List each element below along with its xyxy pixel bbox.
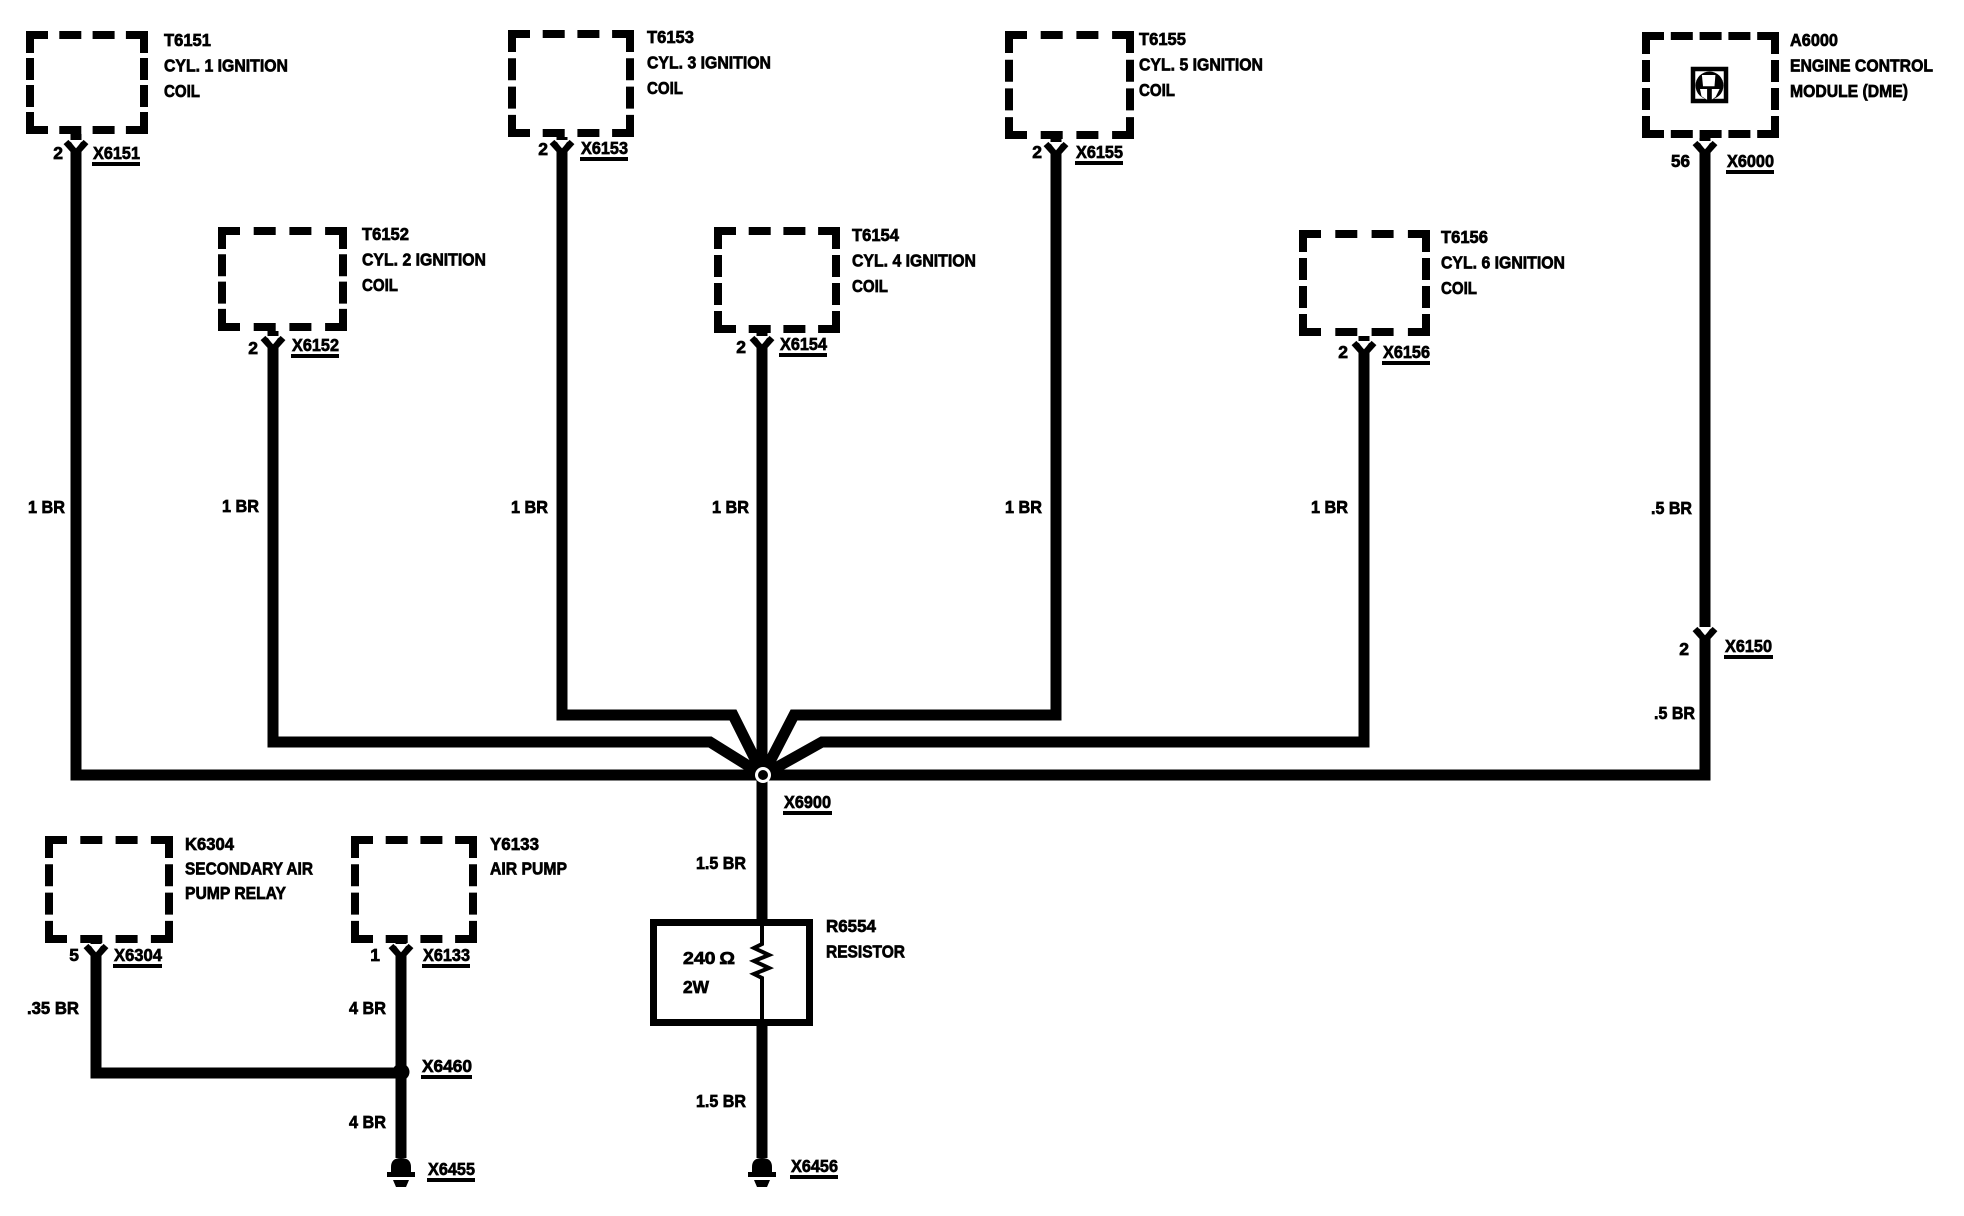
wire size label 1 BR at x548 y500 bbox=[511, 497, 548, 517]
label Y6133 bbox=[490, 834, 567, 879]
label T6154 bbox=[852, 225, 976, 296]
svg-text:.5 BR: .5 BR bbox=[1651, 498, 1692, 518]
wire size label 1 BR at x259 y499 bbox=[222, 496, 259, 516]
svg-text:5: 5 bbox=[69, 945, 79, 965]
svg-text:MODULE (DME): MODULE (DME) bbox=[1790, 81, 1908, 101]
svg-text:T6152: T6152 bbox=[362, 224, 409, 244]
wire size label 4 BR at x386 y1115 bbox=[349, 1112, 386, 1132]
connector X6152 pin 2 bbox=[248, 335, 339, 358]
wire size label 1 BR at x1348 y500 bbox=[1311, 497, 1348, 517]
svg-text:1 BR: 1 BR bbox=[712, 497, 749, 517]
A6000 DME icon bbox=[1693, 69, 1726, 101]
wire size label .5 BR at x1695 y706 bbox=[1654, 703, 1695, 723]
svg-text:T6156: T6156 bbox=[1441, 227, 1488, 247]
svg-text:T6155: T6155 bbox=[1139, 29, 1186, 49]
connector X6154 pin 2 bbox=[736, 334, 827, 357]
label A6000 bbox=[1790, 30, 1933, 101]
svg-text:X6456: X6456 bbox=[791, 1156, 838, 1176]
svg-text:CYL. 4 IGNITION: CYL. 4 IGNITION bbox=[852, 251, 976, 271]
svg-text:CYL. 1 IGNITION: CYL. 1 IGNITION bbox=[164, 56, 288, 76]
label R6554 bbox=[826, 916, 905, 961]
ignition coil T6154 bbox=[714, 227, 840, 333]
svg-text:PUMP RELAY: PUMP RELAY bbox=[185, 883, 286, 903]
svg-text:AIR PUMP: AIR PUMP bbox=[490, 859, 567, 879]
resistor R6554 box bbox=[654, 923, 810, 1023]
svg-text:X6154: X6154 bbox=[780, 334, 827, 354]
svg-text:X6150: X6150 bbox=[1725, 636, 1772, 656]
svg-text:RESISTOR: RESISTOR bbox=[826, 942, 905, 962]
svg-text:X6133: X6133 bbox=[423, 945, 470, 965]
connector X6133 pin 1 bbox=[370, 944, 470, 968]
svg-text:COIL: COIL bbox=[362, 275, 398, 295]
label T6156 bbox=[1441, 227, 1565, 298]
svg-text:4 BR: 4 BR bbox=[349, 998, 386, 1018]
node X6460 junction bbox=[393, 1064, 410, 1081]
svg-text:CYL. 3 IGNITION: CYL. 3 IGNITION bbox=[647, 53, 771, 73]
ground bus wire X6900 horizontal bbox=[71, 770, 1711, 781]
wire .5 BR from A6000 to ground bus bbox=[1700, 138, 1711, 770]
svg-text:X6153: X6153 bbox=[581, 138, 628, 158]
air pump Y6133 bbox=[351, 836, 477, 943]
svg-text:1 BR: 1 BR bbox=[1311, 497, 1348, 517]
ignition coil T6151 bbox=[26, 31, 148, 134]
svg-text:X6304: X6304 bbox=[114, 945, 162, 965]
label T6155 bbox=[1139, 29, 1263, 100]
wire size label 1.5 BR at x746 y856 bbox=[696, 853, 746, 873]
engine control module A6000 bbox=[1642, 32, 1779, 138]
wire 1.5 BR from resistor R6554 to ground X6456 bbox=[757, 1021, 768, 1158]
wire size label 4 BR at x386 y1001 bbox=[349, 998, 386, 1018]
svg-text:Y6133: Y6133 bbox=[490, 834, 539, 854]
svg-text:X6151: X6151 bbox=[93, 143, 140, 163]
ground X6456 bbox=[748, 1156, 838, 1187]
svg-text:COIL: COIL bbox=[1139, 80, 1175, 100]
svg-text:X6455: X6455 bbox=[428, 1159, 475, 1179]
svg-text:K6304: K6304 bbox=[185, 834, 234, 854]
svg-text:2: 2 bbox=[1338, 342, 1348, 362]
wire size label 1.5 BR at x746 y1094 bbox=[696, 1091, 746, 1111]
svg-text:1: 1 bbox=[370, 945, 380, 965]
svg-text:240 Ω: 240 Ω bbox=[683, 948, 735, 968]
svg-text:2: 2 bbox=[1032, 142, 1042, 162]
ignition coil T6156 bbox=[1299, 230, 1430, 336]
svg-text:1 BR: 1 BR bbox=[1005, 497, 1042, 517]
wire size label .35 BR at x79 y1001 bbox=[27, 998, 79, 1018]
node X6460 label bbox=[421, 1056, 472, 1079]
svg-text:CYL. 5 IGNITION: CYL. 5 IGNITION bbox=[1139, 55, 1263, 75]
wire size label 1 BR at x749 y500 bbox=[712, 497, 749, 517]
svg-text:1 BR: 1 BR bbox=[28, 497, 65, 517]
svg-text:X6156: X6156 bbox=[1383, 342, 1430, 362]
relay K6304 bbox=[45, 836, 173, 943]
wire size label 1 BR at x1042 y500 bbox=[1005, 497, 1042, 517]
svg-text:A6000: A6000 bbox=[1790, 30, 1838, 50]
svg-text:ENGINE CONTROL: ENGINE CONTROL bbox=[1790, 56, 1933, 76]
svg-text:T6153: T6153 bbox=[647, 27, 694, 47]
svg-text:T6154: T6154 bbox=[852, 225, 899, 245]
svg-text:4 BR: 4 BR bbox=[349, 1112, 386, 1132]
svg-text:COIL: COIL bbox=[164, 81, 200, 101]
connector X6150 pin 2 bbox=[1679, 627, 1773, 659]
svg-text:COIL: COIL bbox=[1441, 278, 1477, 298]
connector X6156 pin 2 bbox=[1338, 341, 1430, 365]
svg-text:56: 56 bbox=[1671, 151, 1690, 171]
connector X6304 pin 5 bbox=[69, 944, 162, 968]
connector X6155 pin 2 bbox=[1032, 142, 1123, 165]
resistor R6554 zigzag element bbox=[754, 925, 769, 1021]
wire size label .5 BR at x1692 y501 bbox=[1651, 498, 1692, 518]
svg-text:.5 BR: .5 BR bbox=[1654, 703, 1695, 723]
svg-text:1.5 BR: 1.5 BR bbox=[696, 1091, 746, 1111]
connector X6153 pin 2 bbox=[538, 138, 628, 161]
ground X6455 bbox=[387, 1158, 475, 1187]
svg-text:2: 2 bbox=[1679, 639, 1689, 659]
svg-text:R6554: R6554 bbox=[826, 916, 876, 936]
wire .35 BR from K6304 to node X6460 bbox=[96, 943, 401, 1073]
label T6151 bbox=[164, 30, 288, 101]
svg-text:.35 BR: .35 BR bbox=[27, 998, 79, 1018]
connector X6151 pin 2 bbox=[53, 140, 140, 166]
ignition coil T6153 bbox=[508, 30, 634, 137]
node X6900 label bbox=[783, 792, 832, 815]
svg-text:COIL: COIL bbox=[647, 78, 683, 98]
value label 240 ohm 2W bbox=[683, 948, 735, 997]
ignition coil T6152 bbox=[218, 227, 347, 331]
svg-text:X6460: X6460 bbox=[422, 1056, 472, 1076]
svg-text:2W: 2W bbox=[683, 977, 709, 997]
svg-text:COIL: COIL bbox=[852, 276, 888, 296]
svg-text:T6151: T6151 bbox=[164, 30, 211, 50]
svg-text:1 BR: 1 BR bbox=[222, 496, 259, 516]
label T6153 bbox=[647, 27, 771, 98]
wire 1 BR from T6155 to node X6900 bbox=[763, 139, 1056, 775]
svg-text:1.5 BR: 1.5 BR bbox=[696, 853, 746, 873]
svg-text:2: 2 bbox=[248, 338, 258, 358]
wire 1 BR from T6151 to ground bus bbox=[71, 134, 82, 770]
ignition coil T6155 bbox=[1005, 31, 1134, 139]
svg-text:X6900: X6900 bbox=[784, 792, 831, 812]
svg-text:SECONDARY AIR: SECONDARY AIR bbox=[185, 859, 313, 879]
svg-text:2: 2 bbox=[53, 143, 63, 163]
svg-text:X6155: X6155 bbox=[1076, 142, 1123, 162]
wire 1 BR from T6156 to node X6900 bbox=[763, 336, 1364, 775]
connector X6000 pin 56 bbox=[1671, 141, 1774, 174]
label K6304 bbox=[185, 834, 313, 903]
svg-text:2: 2 bbox=[736, 337, 746, 357]
svg-text:X6000: X6000 bbox=[1727, 151, 1774, 171]
wire 1 BR from T6153 to node X6900 bbox=[562, 137, 763, 775]
wire 1 BR from T6154 to resistor R6554 bbox=[757, 333, 768, 924]
svg-text:CYL. 2 IGNITION: CYL. 2 IGNITION bbox=[362, 250, 486, 270]
wire 4 BR from Y6133 to ground X6455 bbox=[396, 943, 407, 1158]
svg-text:X6152: X6152 bbox=[292, 335, 339, 355]
svg-text:1 BR: 1 BR bbox=[511, 497, 548, 517]
label T6152 bbox=[362, 224, 486, 295]
wire 1 BR from T6152 to node X6900 bbox=[273, 331, 763, 775]
svg-text:CYL. 6 IGNITION: CYL. 6 IGNITION bbox=[1441, 253, 1565, 273]
node X6900 junction bbox=[755, 767, 771, 783]
wire size label 1 BR at x65 y500 bbox=[28, 497, 65, 517]
svg-text:2: 2 bbox=[538, 139, 548, 159]
